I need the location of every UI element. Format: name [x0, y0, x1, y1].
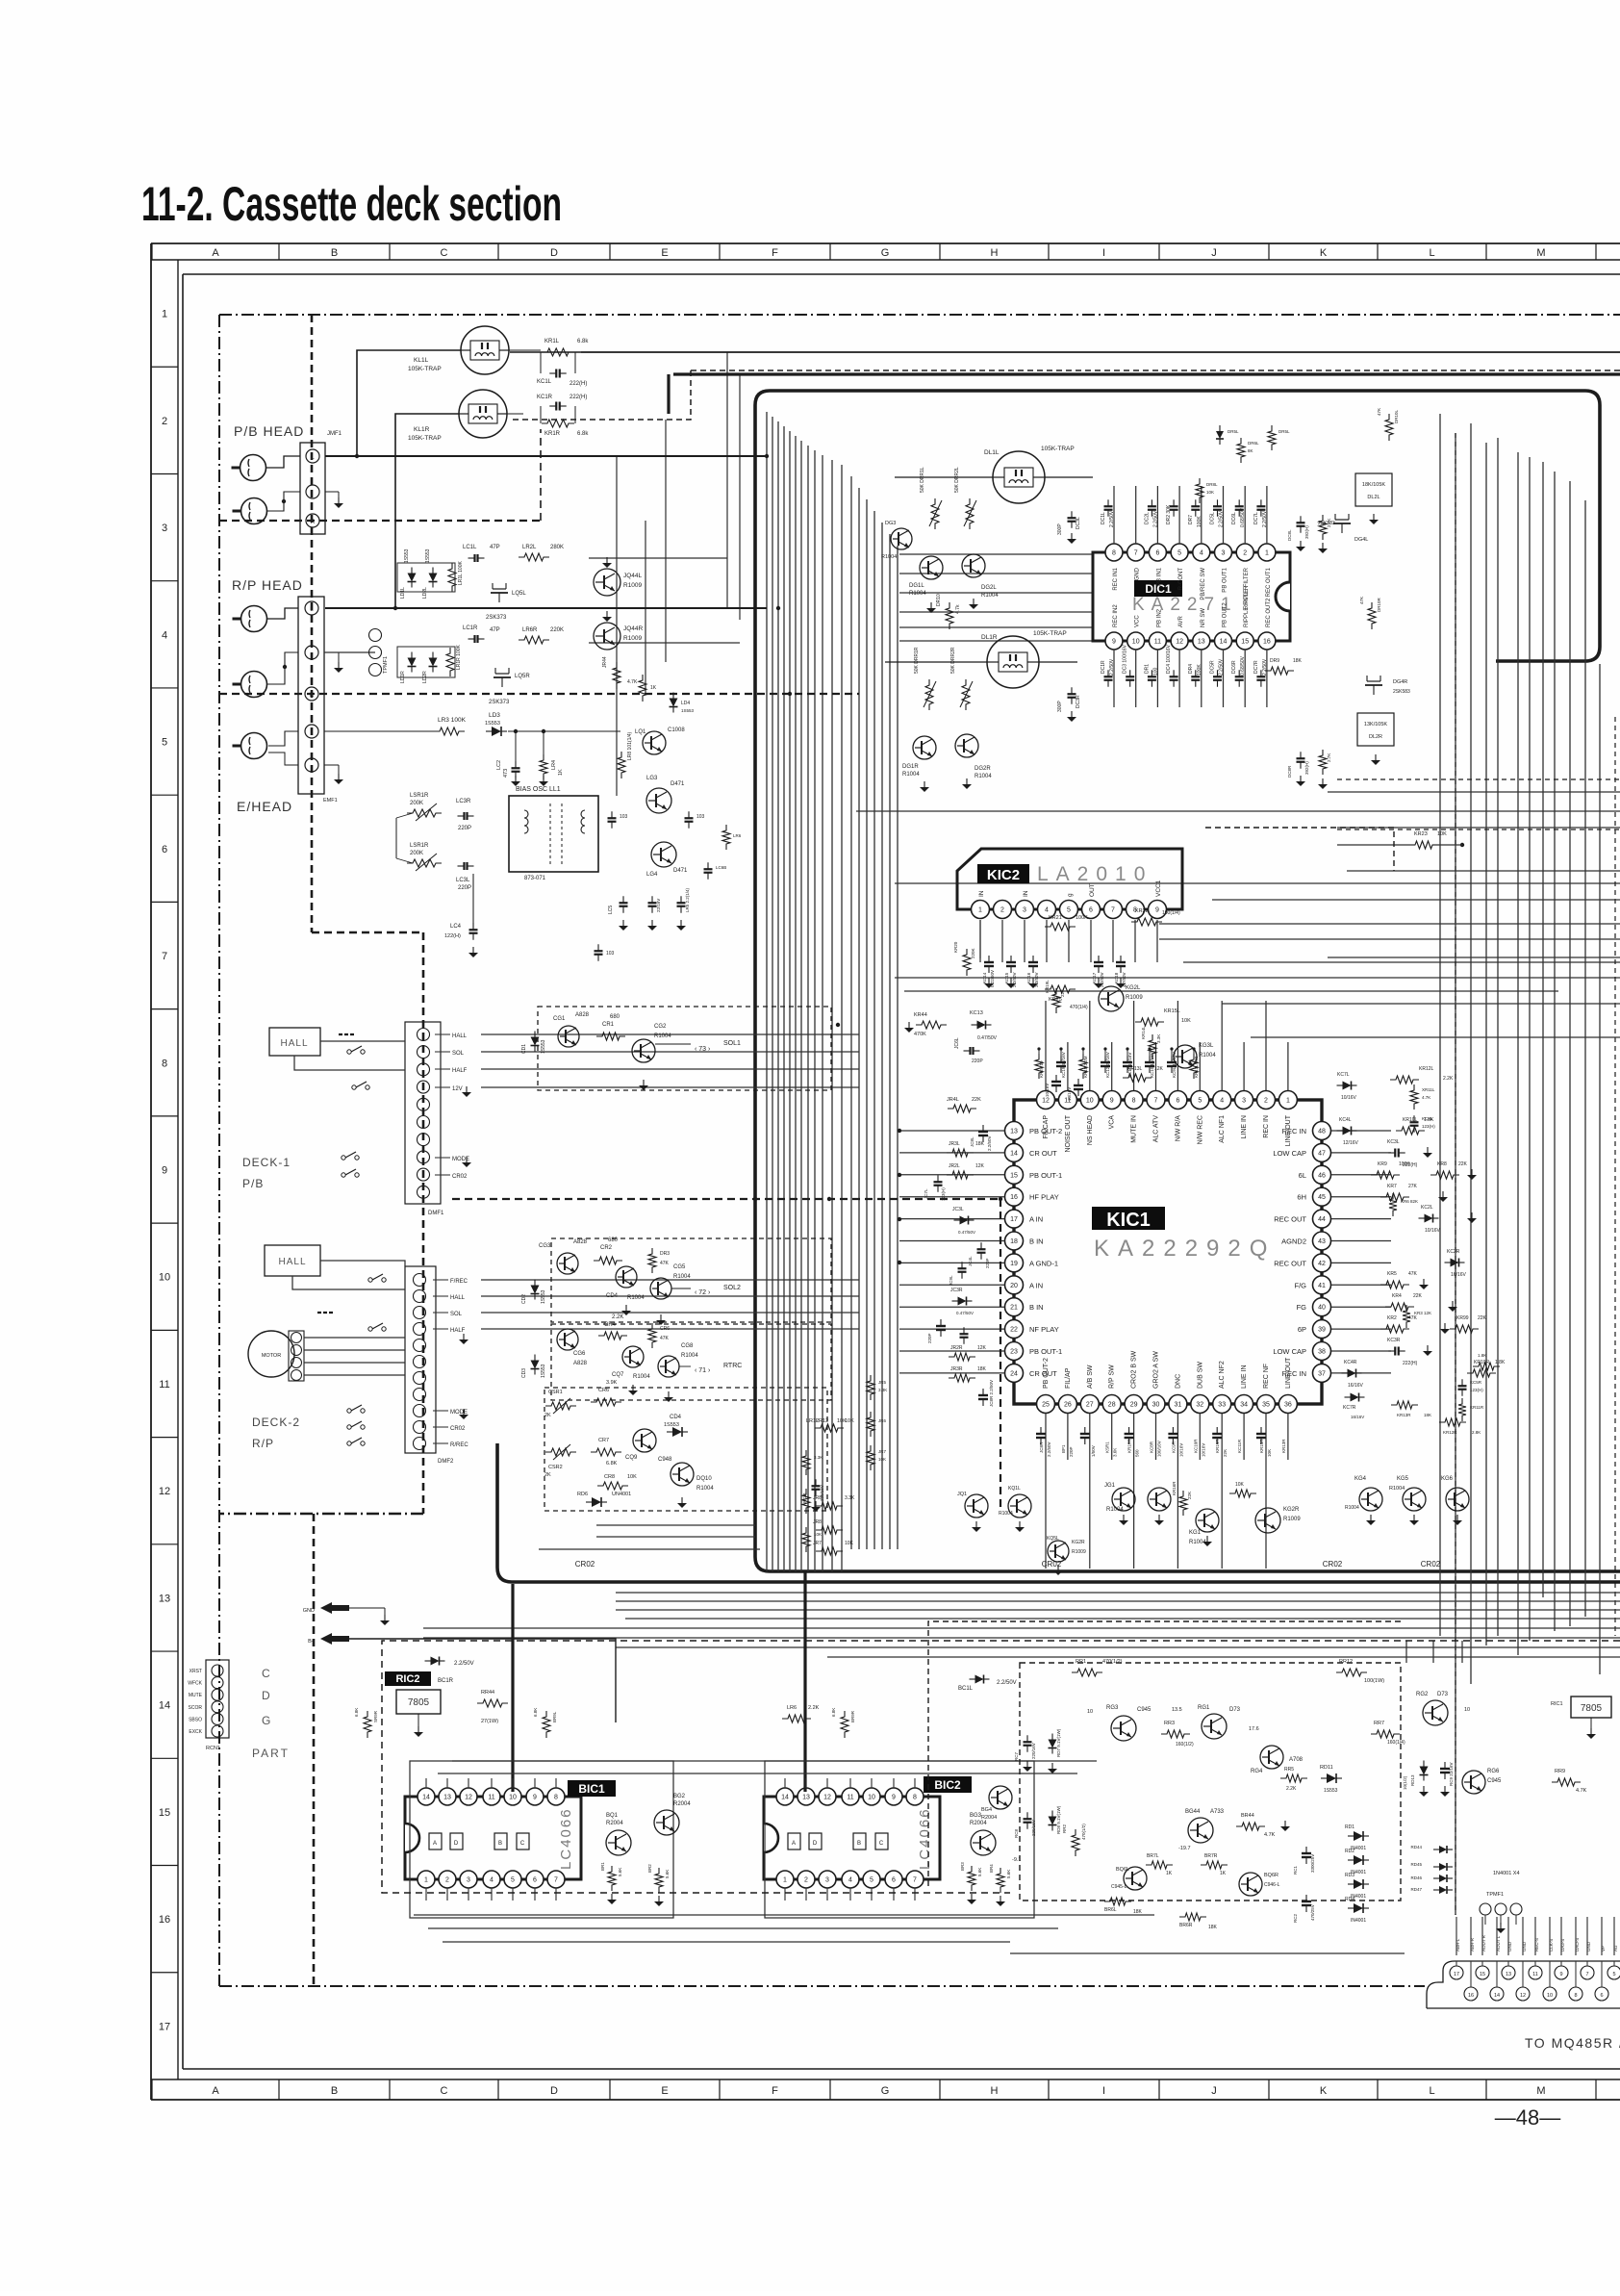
svg-text:A/B SW: A/B SW	[1087, 1365, 1094, 1389]
svg-text:JC8R: JC8R	[1039, 1441, 1044, 1453]
svg-text:LQ5L: LQ5L	[512, 591, 526, 597]
svg-text:XR11L: XR11L	[1422, 1087, 1435, 1092]
svg-text:ALC ATV: ALC ATV	[1153, 1115, 1160, 1143]
svg-text:KR12R: KR12R	[1443, 1430, 1457, 1435]
svg-text:KC19 47/16V: KC19 47/16V	[1061, 1052, 1066, 1078]
svg-text:BG44: BG44	[1185, 1809, 1201, 1815]
svg-text:27: 27	[1086, 1402, 1094, 1409]
svg-text:HALF: HALF	[452, 1068, 468, 1074]
svg-text:7805: 7805	[1581, 1703, 1603, 1714]
svg-text:1: 1	[783, 1877, 787, 1884]
svg-text:REC NF: REC NF	[1263, 1364, 1270, 1389]
svg-text:220P: 220P	[972, 1059, 983, 1064]
svg-text:30: 30	[1152, 1402, 1160, 1409]
svg-text:LR1L 100K: LR1L 100K	[458, 561, 464, 585]
svg-text:RD13: RD13	[1410, 1774, 1415, 1786]
svg-text:DC8L: DC8L	[1287, 529, 1292, 541]
svg-text:K: K	[1320, 2085, 1328, 2097]
svg-text:L: L	[1429, 2085, 1434, 2097]
svg-text:33: 33	[1218, 1402, 1226, 1409]
svg-text:470(1/4): 470(1/4)	[1070, 1005, 1088, 1010]
svg-text:RD7 9.1V(1W): RD7 9.1V(1W)	[1056, 1728, 1061, 1757]
svg-text:R1004: R1004	[902, 772, 920, 778]
svg-text:BR1: BR1	[600, 1862, 605, 1871]
svg-text:18K: 18K	[975, 1141, 985, 1147]
svg-text:F: F	[772, 2085, 778, 2097]
svg-text:17: 17	[1454, 1972, 1459, 1977]
svg-text:48: 48	[1318, 1129, 1326, 1135]
svg-text:LINE IN: LINE IN	[1241, 1115, 1248, 1139]
svg-text:A: A	[792, 1841, 796, 1847]
svg-text:MUTE IN: MUTE IN	[1131, 1115, 1138, 1143]
svg-text:32: 32	[1196, 1402, 1203, 1409]
svg-text:100K: 100K	[1076, 915, 1088, 921]
svg-text:2.2/50V: 2.2/50V	[454, 1661, 474, 1667]
svg-text:1: 1	[424, 1877, 428, 1884]
svg-text:DR10L: DR10L	[1394, 409, 1399, 423]
svg-text:D: D	[550, 247, 558, 259]
svg-text:JC3L: JC3L	[952, 1207, 964, 1212]
svg-text:KC17: KC17	[1092, 972, 1097, 983]
svg-text:11: 11	[847, 1795, 853, 1801]
svg-text:7: 7	[1585, 1972, 1588, 1977]
svg-text:DR9: DR9	[1270, 658, 1279, 664]
svg-text:10K: 10K	[878, 1457, 886, 1462]
svg-text:22K: 22K	[1458, 1161, 1468, 1167]
svg-text:RD3: RD3	[1345, 1873, 1354, 1878]
svg-text:LSR1R: LSR1R	[410, 843, 429, 849]
svg-text:CR6: CR6	[660, 1326, 670, 1332]
svg-text:R1004: R1004	[1389, 1486, 1405, 1492]
svg-text:10: 10	[1087, 1709, 1093, 1715]
svg-text:14: 14	[159, 1700, 170, 1712]
svg-text:16: 16	[1468, 1993, 1474, 1999]
svg-text:R1004: R1004	[1106, 1507, 1124, 1513]
svg-text:REC IN1: REC IN1	[1113, 567, 1119, 590]
svg-text:CG1: CG1	[553, 1016, 566, 1022]
svg-text:46: 46	[1318, 1172, 1326, 1179]
svg-text:RG3: RG3	[1106, 1705, 1119, 1711]
svg-text:BC1L: BC1L	[958, 1686, 974, 1692]
svg-text:BR9R: BR9R	[850, 1710, 855, 1722]
svg-text:JR8: JR8	[813, 1495, 822, 1501]
svg-text:10K: 10K	[1235, 1482, 1245, 1488]
svg-text:BR6R: BR6R	[1179, 1923, 1193, 1928]
svg-text:RD6: RD6	[577, 1492, 588, 1497]
svg-text:HALL: HALL	[278, 1257, 306, 1267]
svg-text:R1009: R1009	[623, 635, 643, 642]
svg-text:E: E	[661, 247, 668, 259]
svg-text:3: 3	[1222, 550, 1226, 557]
svg-text:103: 103	[606, 951, 615, 957]
svg-text:KC9R: KC9R	[1171, 1441, 1176, 1453]
svg-text:13: 13	[159, 1593, 170, 1604]
svg-text:18K: 18K	[1293, 658, 1303, 664]
svg-text:680: 680	[608, 1237, 619, 1243]
svg-text:300P: 300P	[1057, 701, 1063, 712]
svg-text:22K: 22K	[1413, 1293, 1423, 1299]
svg-text:R1009: R1009	[1126, 995, 1143, 1001]
svg-text:1.8K: 1.8K	[1478, 1353, 1486, 1358]
svg-text:5: 5	[1067, 907, 1071, 914]
svg-text:222(H): 222(H)	[1403, 1361, 1418, 1366]
svg-text:F/G: F/G	[1295, 1281, 1307, 1289]
svg-text:KR1L: KR1L	[544, 339, 560, 344]
svg-text:A828: A828	[573, 1239, 588, 1245]
svg-text:LC1L: LC1L	[463, 545, 477, 550]
svg-text:4.7K: 4.7K	[1264, 1832, 1276, 1838]
svg-text:LD2R: LD2R	[422, 671, 428, 683]
svg-text:DNC: DNC	[1175, 1374, 1181, 1389]
svg-text:EMF1: EMF1	[323, 798, 338, 804]
svg-text:A GND-1: A GND-1	[1029, 1259, 1058, 1267]
svg-text:3.3K: 3.3K	[1156, 1034, 1161, 1043]
svg-text:N/W REC: N/W REC	[1197, 1115, 1203, 1144]
svg-text:I: I	[1102, 2085, 1105, 2097]
svg-text:123(H): 123(H)	[1422, 1124, 1435, 1129]
svg-text:1: 1	[1265, 550, 1269, 557]
svg-text:LSR1R: LSR1R	[410, 793, 429, 799]
svg-text:RD44: RD44	[1410, 1845, 1422, 1850]
svg-text:SCOR: SCOR	[189, 1705, 203, 1711]
svg-text:1S553: 1S553	[541, 1364, 546, 1378]
svg-text:2.2K: 2.2K	[1286, 1786, 1297, 1792]
svg-text:36: 36	[1284, 1402, 1292, 1409]
svg-text:8: 8	[1574, 1993, 1577, 1999]
svg-text:KG6: KG6	[1441, 1476, 1454, 1482]
svg-text:CD1: CD1	[521, 1044, 527, 1054]
svg-text:KC5R: KC5R	[1470, 1380, 1482, 1385]
svg-text:A708: A708	[1289, 1757, 1304, 1763]
svg-text:HALL: HALL	[452, 1033, 468, 1039]
svg-text:392(H): 392(H)	[1304, 525, 1309, 539]
svg-text:220/16V: 220/16V	[1031, 1820, 1036, 1836]
svg-text:G: G	[881, 2085, 890, 2097]
svg-text:0.68/50V: 0.68/50V	[1240, 655, 1246, 676]
svg-text:PB/REC SW: PB/REC SW	[1201, 568, 1206, 600]
svg-text:BR3: BR3	[960, 1862, 965, 1871]
svg-text:RD4: RD4	[1345, 1897, 1354, 1902]
svg-text:KL1R: KL1R	[414, 426, 430, 433]
svg-text:1: 1	[1286, 1098, 1290, 1105]
svg-text:KG2L: KG2L	[1126, 985, 1141, 991]
svg-text:KR17L 560: KR17L 560	[1194, 1056, 1199, 1078]
svg-text:B IN: B IN	[1029, 1303, 1044, 1312]
svg-text:LD3: LD3	[489, 712, 500, 719]
svg-text:CR7: CR7	[598, 1438, 609, 1443]
svg-text:DC2L: DC2L	[1144, 512, 1150, 524]
svg-text:22: 22	[1010, 1327, 1018, 1334]
svg-text:100(1W): 100(1W)	[1364, 1678, 1384, 1684]
svg-text:160(1/2): 160(1/2)	[1176, 1742, 1194, 1748]
svg-text:105K-TRAP: 105K-TRAP	[408, 366, 442, 372]
svg-text:25: 25	[1042, 1402, 1050, 1409]
svg-text:BR7R: BR7R	[1204, 1853, 1218, 1859]
svg-text:220K: 220K	[971, 948, 975, 958]
svg-text:CSR1: CSR1	[548, 1390, 563, 1395]
svg-text:FIL/AP: FIL/AP	[1065, 1367, 1072, 1389]
svg-text:KR7: KR7	[1387, 1184, 1397, 1189]
svg-text:JR7: JR7	[813, 1541, 822, 1546]
svg-text:KC2L: KC2L	[1421, 1205, 1433, 1211]
svg-text:12K: 12K	[1154, 1066, 1164, 1072]
svg-text:4.7K: 4.7K	[1422, 1095, 1430, 1100]
svg-text:CD2: CD2	[521, 1294, 527, 1304]
svg-text:F/REC: F/REC	[450, 1279, 468, 1285]
svg-text:GND: GND	[1522, 1941, 1527, 1952]
svg-text:R/REC: R/REC	[450, 1442, 468, 1448]
svg-text:1S553: 1S553	[485, 721, 500, 727]
svg-text:KR3 12K: KR3 12K	[1414, 1311, 1431, 1315]
svg-text:10/16V: 10/16V	[1178, 1443, 1183, 1457]
svg-text:LR1R 100K: LR1R 100K	[456, 644, 462, 670]
svg-text:C: C	[441, 247, 448, 259]
svg-text:JR7: JR7	[878, 1449, 886, 1454]
svg-text:3.3K: 3.3K	[814, 1455, 823, 1460]
svg-text:CR02: CR02	[1323, 1560, 1343, 1569]
svg-text:12: 12	[1176, 639, 1183, 646]
svg-text:DG1L: DG1L	[909, 583, 924, 589]
svg-text:19: 19	[1010, 1261, 1018, 1267]
svg-text:KIC2: KIC2	[987, 867, 1020, 883]
svg-text:‹ 71 ›: ‹ 71 ›	[695, 1367, 711, 1374]
svg-text:RD2: RD2	[1345, 1849, 1354, 1854]
svg-text:DC3R: DC3R	[1076, 695, 1081, 708]
svg-text:23: 23	[1010, 1349, 1018, 1356]
svg-text:JC8R 2.2/50V: JC8R 2.2/50V	[989, 1380, 994, 1407]
svg-text:7: 7	[1154, 1098, 1158, 1105]
svg-text:KC7L: KC7L	[1337, 1072, 1350, 1078]
svg-text:12: 12	[465, 1795, 472, 1801]
svg-text:R1004: R1004	[681, 1353, 698, 1359]
svg-text:2K: 2K	[544, 1472, 551, 1478]
svg-text:VP: VP	[1601, 1946, 1606, 1952]
svg-text:2.2/50V: 2.2/50V	[1262, 510, 1268, 527]
svg-text:47K: 47K	[660, 1336, 670, 1341]
svg-text:1K: 1K	[650, 685, 657, 691]
svg-text:LD1L: LD1L	[400, 587, 406, 599]
svg-text:LR6: LR6	[787, 1705, 797, 1711]
svg-text:DG2L: DG2L	[981, 585, 997, 591]
svg-text:12V: 12V	[452, 1086, 463, 1092]
svg-text:KR15R: KR15R	[1259, 1439, 1264, 1453]
svg-text:22/16V: 22/16V	[656, 899, 661, 912]
svg-text:DC8R: DC8R	[1287, 765, 1292, 778]
svg-text:105K-TRAP: 105K-TRAP	[1033, 630, 1067, 637]
svg-text:12: 12	[1042, 1098, 1050, 1105]
svg-text:RC9 22/16V: RC9 22/16V	[1449, 1762, 1454, 1786]
svg-text:KR13R: KR13R	[1397, 1413, 1411, 1417]
svg-text:220P: 220P	[927, 1333, 932, 1343]
svg-text:MUTE: MUTE	[189, 1693, 203, 1698]
svg-text:RG4: RG4	[1251, 1769, 1263, 1774]
svg-text:50K DRR2R: 50K DRR2R	[950, 647, 956, 674]
svg-text:122(H): 122(H)	[444, 933, 461, 939]
svg-text:47K: 47K	[1408, 1315, 1418, 1321]
svg-text:LINE OUT: LINE OUT	[1285, 1114, 1292, 1146]
svg-text:DA3-S: DA3-S	[1560, 1939, 1565, 1952]
svg-text:A: A	[212, 2085, 219, 2097]
svg-text:873-071: 873-071	[524, 876, 546, 881]
svg-text:JQ44R: JQ44R	[623, 625, 644, 632]
svg-text:220P: 220P	[458, 885, 471, 891]
svg-text:SOL2: SOL2	[723, 1285, 741, 1291]
svg-text:18K: 18K	[1133, 1909, 1143, 1915]
svg-text:1: 1	[162, 309, 167, 320]
svg-text:KC2R: KC2R	[1447, 1249, 1460, 1255]
svg-text:11: 11	[159, 1379, 169, 1390]
svg-text:NS HEAD: NS HEAD	[1087, 1115, 1094, 1145]
svg-text:2SK373: 2SK373	[486, 615, 507, 621]
svg-text:BP1: BP1	[1061, 1444, 1066, 1453]
svg-text:RC2: RC2	[1293, 1914, 1298, 1923]
svg-text:16: 16	[159, 1914, 170, 1926]
svg-text:G: G	[881, 247, 890, 259]
svg-text:JR2L: JR2L	[949, 1163, 960, 1169]
svg-text:R1004: R1004	[981, 593, 999, 599]
svg-text:KC1L: KC1L	[537, 379, 552, 385]
svg-text:1K: 1K	[1220, 1871, 1227, 1876]
svg-text:10/16V: 10/16V	[1067, 1087, 1072, 1101]
svg-text:RC7: RC7	[1014, 1752, 1019, 1761]
svg-text:5: 5	[1612, 1972, 1615, 1977]
svg-text:R1004: R1004	[633, 1374, 650, 1380]
svg-text:CD4: CD4	[670, 1415, 682, 1420]
svg-text:BG3: BG3	[970, 1813, 982, 1819]
svg-text:0.47/50V: 0.47/50V	[977, 1035, 998, 1041]
svg-text:17: 17	[1010, 1216, 1018, 1223]
svg-text:LC5: LC5	[608, 906, 614, 914]
svg-text:CR OUT: CR OUT	[1029, 1149, 1057, 1158]
svg-text:HF PLAY: HF PLAY	[1029, 1193, 1059, 1202]
svg-text:N/W R/A: N/W R/A	[1175, 1115, 1181, 1142]
svg-text:B IN: B IN	[1029, 1237, 1044, 1246]
svg-text:KC11 10/16V: KC11 10/16V	[1127, 1053, 1132, 1078]
svg-text:DR1: DR1	[1144, 664, 1150, 674]
svg-text:DL2L: DL2L	[1367, 495, 1380, 500]
svg-text:SOL: SOL	[450, 1312, 463, 1317]
svg-text:JC4L: JC4L	[968, 1256, 973, 1266]
svg-text:R2004: R2004	[970, 1821, 987, 1826]
svg-text:50K DRR2L: 50K DRR2L	[954, 467, 960, 493]
svg-text:KR4: KR4	[1392, 1293, 1402, 1299]
svg-text:DC4 100/16V: DC4 100/16V	[1166, 644, 1172, 674]
svg-text:0.68/50V: 0.68/50V	[1240, 507, 1246, 527]
svg-text:44: 44	[1318, 1216, 1326, 1223]
svg-text:DAO-S: DAO-S	[1575, 1938, 1580, 1952]
svg-text:470(1/2): 470(1/2)	[1102, 1659, 1123, 1665]
svg-text:10: 10	[1464, 1707, 1470, 1713]
svg-text:CR2: CR2	[600, 1245, 613, 1251]
svg-text:4: 4	[162, 629, 167, 641]
svg-text:B: B	[331, 2085, 338, 2097]
svg-text:12K: 12K	[975, 1163, 985, 1169]
svg-text:2.2/50V: 2.2/50V	[1109, 658, 1115, 676]
svg-text:R-CONT: R-CONT	[1178, 568, 1184, 591]
svg-text:JC8L: JC8L	[970, 1136, 975, 1147]
svg-text:SOL1: SOL1	[723, 1040, 741, 1047]
svg-text:5: 5	[1177, 550, 1181, 557]
svg-text:222(H): 222(H)	[570, 381, 587, 387]
svg-text:D: D	[550, 2085, 558, 2097]
svg-text:14: 14	[781, 1795, 789, 1801]
svg-text:R2004: R2004	[673, 1801, 691, 1807]
svg-text:JC7L: JC7L	[924, 1188, 928, 1199]
svg-text:DR8L: DR8L	[1206, 482, 1218, 487]
svg-text:1: 1	[978, 907, 982, 914]
svg-text:SBSO: SBSO	[189, 1717, 202, 1722]
svg-text:LR4: LR4	[551, 760, 557, 770]
svg-text:R1004: R1004	[627, 1295, 645, 1301]
svg-text:8K: 8K	[1248, 448, 1253, 453]
svg-text:DG4R: DG4R	[1393, 679, 1407, 685]
svg-text:R2004: R2004	[606, 1821, 623, 1826]
svg-text:KC4L: KC4L	[1339, 1117, 1352, 1123]
svg-text:10: 10	[509, 1795, 517, 1801]
svg-text:DL1L: DL1L	[984, 449, 1000, 456]
svg-text:2.8K: 2.8K	[1472, 1430, 1481, 1435]
svg-text:300P: 300P	[1057, 523, 1063, 535]
svg-text:IN4001: IN4001	[1351, 1918, 1366, 1924]
svg-text:7: 7	[1111, 907, 1115, 914]
svg-text:3: 3	[825, 1877, 829, 1884]
svg-text:4: 4	[1045, 907, 1049, 914]
svg-text:6: 6	[1176, 1098, 1179, 1105]
svg-text:47K: 47K	[1377, 408, 1381, 416]
svg-text:DC6L: DC6L	[1231, 512, 1237, 524]
svg-text:6: 6	[892, 1877, 896, 1884]
svg-text:KC3L: KC3L	[1387, 1139, 1400, 1145]
svg-text:47K: 47K	[1408, 1271, 1418, 1277]
svg-text:RCN1: RCN1	[206, 1746, 220, 1751]
svg-text:FG: FG	[1297, 1303, 1307, 1312]
svg-text:8: 8	[1132, 1098, 1136, 1105]
svg-text:REC OUT: REC OUT	[1274, 1259, 1306, 1267]
svg-text:DL1R: DL1R	[981, 634, 998, 641]
svg-text:RR3: RR3	[1164, 1721, 1175, 1726]
svg-text:LG3: LG3	[646, 776, 658, 781]
svg-text:2.2/50V: 2.2/50V	[997, 1680, 1017, 1686]
svg-text:KR1R: KR1R	[544, 431, 561, 437]
svg-text:6: 6	[1089, 907, 1093, 914]
svg-text:43: 43	[1318, 1238, 1326, 1245]
svg-text:A: A	[433, 1841, 437, 1847]
svg-text:AGND2: AGND2	[1281, 1237, 1306, 1246]
svg-text:CR02: CR02	[1421, 1560, 1441, 1569]
svg-text:10: 10	[1086, 1098, 1094, 1105]
svg-text:KR9: KR9	[1378, 1161, 1387, 1167]
svg-text:GRO2 A SW: GRO2 A SW	[1153, 1351, 1160, 1389]
svg-text:UN4001: UN4001	[612, 1492, 631, 1497]
svg-text:R1004: R1004	[999, 1511, 1013, 1517]
svg-text:IN: IN	[978, 890, 985, 897]
svg-text:DC6R: DC6R	[1231, 660, 1237, 674]
svg-text:NOISE OUT: NOISE OUT	[1065, 1114, 1072, 1152]
svg-text:LR3 100K: LR3 100K	[438, 717, 467, 724]
svg-text:RIC2: RIC2	[395, 1673, 419, 1685]
svg-text:7: 7	[554, 1877, 558, 1884]
svg-text:14: 14	[422, 1795, 430, 1801]
svg-text:NR SW: NR SW	[1201, 608, 1206, 627]
svg-text:15: 15	[1241, 639, 1249, 646]
svg-text:9: 9	[892, 1795, 896, 1801]
svg-text:DR7: DR7	[1188, 515, 1194, 524]
svg-text:KR44: KR44	[914, 1012, 927, 1018]
svg-text:REC OUT1: REC OUT1	[1266, 567, 1272, 597]
svg-text:4.7k: 4.7k	[955, 604, 961, 614]
svg-text:2.2/50V: 2.2/50V	[1219, 658, 1225, 676]
svg-text:JR3L: JR3L	[949, 1141, 960, 1147]
